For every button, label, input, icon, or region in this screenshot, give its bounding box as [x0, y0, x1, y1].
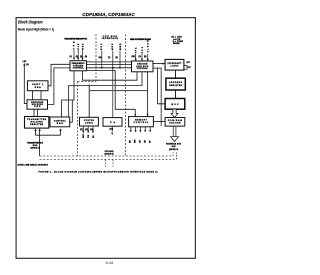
group B pin 3 [119, 51, 121, 68]
group B pin 1 [101, 51, 103, 68]
hollow arrowhead [171, 137, 179, 142]
block MUX [165, 99, 185, 110]
connector Box1 Box2 left [32, 91, 34, 100]
LIN input label [23, 61, 29, 66]
bracket wire [36, 134, 61, 136]
svg-text:CONTROL: CONTROL [134, 122, 150, 124]
B4 right stub to ROMRAM [153, 121, 165, 123]
INT right stub [184, 64, 188, 66]
drop from bracket [39, 135, 41, 156]
svg-text:CONTROL: CONTROL [137, 68, 149, 70]
svg-text:(2): (2) [139, 56, 142, 58]
thick horizontal L_c [89, 90, 147, 92]
hollow arrow MUX to ROMRAM [171, 109, 178, 117]
ROMRAM double line down [172, 126, 174, 137]
svg-text:REG: REG [34, 106, 41, 108]
svg-text:Mode Input High (Mode = 1): Mode Input High (Mode = 1) [18, 27, 54, 31]
thick vertical to B3 top [88, 86, 90, 118]
svg-text:(33): (33) [132, 56, 136, 58]
svg-text:(MODE 0): (MODE 0) [169, 149, 178, 151]
block B1L transmitter holding [25, 117, 49, 129]
bus line 2 [87, 64, 132, 66]
B3 bottom pin 3 [92, 126, 94, 133]
svg-text:(8): (8) [116, 57, 119, 59]
svg-text:REGISTER: REGISTER [30, 124, 44, 126]
mode0 left text [105, 151, 115, 155]
svg-text:25-31: 25-31 [33, 145, 38, 147]
dashed D-left lower [77, 81, 79, 156]
B4 pin labels vertical [130, 139, 152, 143]
wire drop to MUX left [158, 68, 165, 104]
svg-text:(23): (23) [85, 129, 89, 131]
wire NDEC pin down to B4 [147, 72, 149, 116]
block B3 status logic [80, 117, 99, 126]
svg-text:REG: REG [35, 87, 41, 89]
svg-text:(9): (9) [26, 64, 29, 66]
group C pin 3 [147, 54, 149, 61]
svg-text:LOGIC: LOGIC [171, 65, 180, 67]
svg-text:BUS: BUS [101, 43, 103, 50]
group A rotated pin labels [74, 41, 85, 50]
svg-text:FREQUENCY: FREQUENCY [72, 63, 86, 65]
svg-text:5-44: 5-44 [106, 261, 114, 265]
svg-text:8-15: 8-15 [172, 146, 176, 148]
INT right labels [187, 62, 192, 69]
LIN arrow up [23, 63, 25, 66]
wire NDEC right lower stub [153, 68, 161, 126]
wire NDEC pin to B2 top (thick) [69, 72, 143, 117]
wire W1 Box1 to F [48, 64, 70, 86]
svg-text:RES: RES [82, 43, 84, 50]
B3' bottom pin [111, 126, 113, 132]
svg-text:INTERRUPT: INTERRUPT [168, 63, 183, 65]
svg-text:REG: REG [57, 123, 63, 125]
svg-text:CONTROL: CONTROL [54, 120, 67, 122]
svg-text:(MODE 1): (MODE 1) [31, 148, 40, 150]
svg-text:LOGIC: LOGIC [85, 123, 94, 125]
svg-text:SDO: SDO [83, 133, 85, 138]
svg-text:(19): (19) [110, 129, 114, 131]
connector INT to ADDR [175, 70, 177, 78]
page frame [16, 18, 195, 259]
block B3' [103, 118, 122, 127]
svg-text:PSI: PSI [88, 134, 90, 138]
group B pin 2 to B3' [112, 51, 114, 118]
group C rotated pin labels [135, 40, 150, 54]
group C pin ticks [132, 56, 147, 58]
svg-text:(5): (5) [144, 56, 147, 58]
dashed short drops [105, 159, 107, 166]
svg-text:(22): (22) [80, 129, 84, 131]
svg-text:MEMORY: MEMORY [135, 120, 148, 122]
svg-text:HOLDING: HOLDING [31, 122, 44, 124]
B3 bottom pin 1 [82, 126, 84, 133]
group A pin 2 [77, 50, 79, 60]
junction dot [88, 85, 90, 87]
block Box1 shift reg [27, 81, 48, 91]
wire NDEC to INT with arrow [153, 63, 165, 65]
block INT [165, 59, 184, 70]
connector ADDR to MUX [175, 90, 177, 99]
dashed D2 [125, 35, 127, 157]
wire F pin to B2 top via left [62, 71, 75, 117]
wire B2 right to y100 [70, 100, 73, 122]
transmitter bus text [27, 142, 44, 150]
B3 pin labels [80, 128, 95, 138]
svg-text:MRD: MRD [112, 43, 114, 50]
bus line 3 [87, 67, 132, 69]
svg-text:SHIFT 1: SHIFT 1 [32, 84, 44, 86]
block Box2 receiver holding [27, 100, 48, 109]
svg-text:CDP1854A, CDP1854AC: CDP1854A, CDP1854AC [82, 12, 135, 17]
connector Box1 Box2 right [40, 91, 42, 100]
dashed jog [78, 80, 97, 82]
group A pin number ticks [70, 55, 88, 58]
INT right stub 2 [184, 68, 188, 70]
svg-text:RDY: RDY [187, 67, 192, 69]
group B rotated pin labels [101, 43, 122, 50]
B4 bottom pins [131, 127, 150, 132]
svg-text:WR: WR [135, 139, 137, 143]
wire W2 Box2 to F [48, 68, 71, 105]
connector Box2 to B1L pin1 [33, 109, 35, 116]
svg-text:CLK: CLK [78, 43, 80, 50]
B3 bottom pin 2 [87, 126, 89, 133]
dashed right risers [172, 152, 174, 156]
svg-text:MWR: MWR [120, 43, 122, 50]
svg-text:20 = VSS: 20 = VSS [173, 43, 180, 45]
svg-text:(1): (1) [70, 56, 73, 58]
wire F bottom edge to B4 top [87, 71, 136, 117]
svg-text:(3): (3) [80, 56, 83, 58]
svg-text:SC1: SC1 [142, 46, 144, 53]
wire NDEC pin to F bottom [83, 71, 138, 80]
group A pin 1 [73, 50, 75, 60]
svg-text:LIN: LIN [23, 61, 27, 63]
svg-text:REGISTER: REGISTER [169, 85, 183, 87]
svg-text:(2): (2) [76, 56, 79, 58]
figure caption [38, 170, 157, 173]
svg-text:CONTROL: CONTROL [73, 68, 85, 70]
block F frequency divider [70, 61, 87, 71]
bus line 1 F to NDEC [87, 61, 132, 63]
group A pin 3 [81, 50, 83, 60]
block ADDR register [166, 78, 185, 90]
group C pin 1 [135, 54, 137, 61]
group B pin ticks [99, 56, 119, 59]
ROMRAM bus text [166, 143, 182, 151]
block NDEC decode and control [132, 61, 154, 72]
block ROMRAM decode [165, 118, 185, 127]
dashed D1 upper [95, 34, 97, 81]
group C pin 2 [141, 54, 143, 61]
svg-text:DIVIDER: DIVIDER [73, 65, 84, 67]
up arrows into B1L bottom [35, 131, 37, 136]
block B4 [129, 117, 154, 127]
LIN wire [24, 65, 27, 103]
svg-text:DECODE: DECODE [137, 64, 148, 66]
note 1 text [18, 163, 49, 166]
svg-text:DECODE: DECODE [169, 123, 181, 125]
svg-text:(MODE 0): (MODE 0) [105, 153, 114, 155]
svg-text:Block Diagram: Block Diagram [18, 20, 43, 25]
block B2 control reg [50, 117, 70, 127]
up arrow into B2 bottom [60, 131, 62, 136]
connector Box2 to B1L pin2 [37, 109, 39, 116]
dashed horizontal pair [40, 155, 173, 157]
svg-text:(7): (7) [108, 57, 111, 59]
svg-text:MUX: MUX [171, 104, 179, 106]
